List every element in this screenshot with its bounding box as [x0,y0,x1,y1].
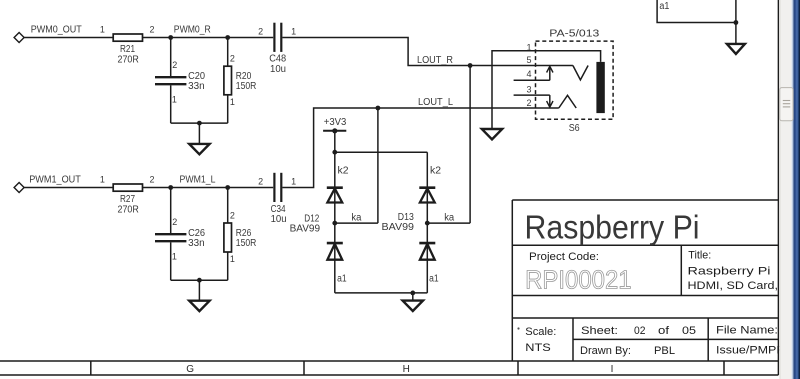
svg-text:Drawn By:: Drawn By: [580,345,631,357]
svg-text:Sheet:: Sheet: [581,325,618,337]
svg-text:1: 1 [172,95,177,105]
svg-text:NTS: NTS [525,342,551,354]
svg-text:k2: k2 [338,166,349,177]
svg-text:a1: a1 [659,1,669,12]
svg-text:Title:: Title: [688,249,711,261]
svg-text:2: 2 [149,175,154,185]
svg-text:150R: 150R [236,238,256,249]
svg-text:1: 1 [291,177,296,187]
svg-text:LOUT_L: LOUT_L [418,97,453,108]
svg-text:PWM1_OUT: PWM1_OUT [29,175,81,186]
svg-text:Scale:: Scale: [525,326,556,338]
svg-text:Raspberry Pi: Raspberry Pi [688,266,771,278]
svg-text:2: 2 [258,177,263,187]
svg-text:02: 02 [634,325,646,337]
svg-text:a1: a1 [337,273,347,284]
svg-text:10u: 10u [271,214,287,225]
svg-text:Project Code:: Project Code: [529,251,599,263]
svg-text:HDMI, SD Card,: HDMI, SD Card, [688,280,779,292]
svg-text:LOUT_R: LOUT_R [417,55,453,66]
svg-text:I: I [611,364,614,375]
svg-text:PA-5/013: PA-5/013 [549,29,600,40]
svg-text:of: of [658,325,670,337]
svg-text:1: 1 [100,175,105,185]
svg-text:270R: 270R [118,54,139,65]
svg-text:G: G [186,364,194,375]
svg-text:2: 2 [149,25,154,35]
svg-text:2: 2 [230,211,235,221]
svg-text:10u: 10u [270,64,286,75]
svg-text:33n: 33n [188,238,205,249]
svg-text:File Name:: File Name: [716,325,778,337]
svg-text:1: 1 [230,97,235,107]
svg-text:2: 2 [172,217,177,227]
svg-text:S6: S6 [569,123,580,134]
svg-text:PBL: PBL [654,345,675,357]
svg-text:1: 1 [230,254,235,264]
svg-text:2: 2 [172,60,177,70]
svg-text:270R: 270R [118,204,139,215]
svg-text:k2: k2 [430,166,441,177]
svg-text:ka: ka [351,212,361,223]
svg-text:PWM0_R: PWM0_R [174,25,211,36]
svg-text:BAV99: BAV99 [382,222,415,233]
svg-text:Issue/PMPF: Issue/PMPF [716,345,784,357]
svg-text:3: 3 [526,84,531,94]
svg-text:2: 2 [230,54,235,64]
svg-text:2: 2 [526,98,531,108]
svg-text:R27: R27 [120,194,135,205]
svg-text:33n: 33n [188,81,205,92]
svg-text:Raspberry Pi: Raspberry Pi [525,209,700,246]
svg-text:150R: 150R [236,81,256,92]
svg-text:1: 1 [172,251,177,261]
svg-text:2: 2 [258,26,263,36]
svg-text:5: 5 [526,55,531,65]
svg-text:+3V3: +3V3 [324,117,347,128]
svg-text:05: 05 [682,325,696,337]
svg-text:BAV99: BAV99 [290,223,321,234]
svg-text:C48: C48 [269,53,286,64]
svg-text:a1: a1 [429,273,439,284]
svg-text:1: 1 [100,25,105,35]
svg-text:4: 4 [526,69,531,79]
svg-text:R21: R21 [120,44,135,55]
svg-text:1: 1 [291,26,296,36]
svg-text:ka: ka [444,212,454,223]
svg-text:PWM1_L: PWM1_L [180,175,216,186]
svg-text:PWM0_OUT: PWM0_OUT [31,25,82,36]
svg-text:H: H [403,364,410,375]
svg-text:RPI00021: RPI00021 [525,264,632,294]
